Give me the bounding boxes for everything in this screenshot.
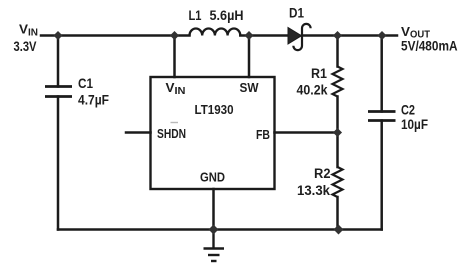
wire top rail left segment (VIN to inductor) [41,34,190,37]
wire FB pin to divider node [275,131,338,134]
wire GND pin to bottom rail [212,189,215,230]
svg-text:R2: R2 [314,166,331,181]
wire left branch lower (C1 bottom plate to bottom rail) [57,97,60,230]
label pin SHDN (faint overbar remnant) [171,122,179,124]
wire R2 bottom to bottom rail [336,197,339,230]
svg-text:D1: D1 [289,6,304,21]
svg-text:13.3k: 13.3k [297,183,330,198]
resistor R1 [333,67,343,97]
resistor R2 [333,167,343,197]
node: ground junction [209,225,219,235]
capacitor C1 [45,87,72,97]
label VIN net [14,22,39,55]
svg-text:4.7µF: 4.7µF [78,93,109,108]
node: FB divider junction [333,128,342,137]
ground [204,230,225,262]
svg-text:SW: SW [240,80,260,95]
node: SW pin junction [244,31,253,40]
svg-text:IN: IN [175,85,186,97]
svg-text:V: V [166,80,175,95]
node: VIN / C1 junction [53,31,62,40]
wire C2 branch upper [380,36,383,112]
label VOUT net [401,24,458,54]
IC U1 LT1930 [151,77,275,189]
label C2 value [401,103,428,133]
node: VIN pin junction [170,31,179,40]
label L1 value [189,8,244,23]
node: VOUT / R1 junction [333,31,342,40]
label C1 value [78,76,109,108]
label R1 value [297,66,328,98]
svg-text:LT1930: LT1930 [195,102,234,117]
svg-text:IN: IN [28,27,38,39]
svg-text:V: V [401,24,410,39]
svg-text:3.3V: 3.3V [14,39,38,54]
wire SW pin to top rail [248,36,251,78]
wire top rail right segment (diode to VOUT) [302,34,397,37]
svg-text:R1: R1 [311,66,327,81]
svg-text:5V/480mA: 5V/480mA [401,39,458,54]
wire VOUT node down to R1 [336,36,339,67]
wire bottom rail [58,228,382,231]
wire VIN pin to top rail [173,36,176,78]
wire top rail middle segment (inductor to diode) [240,34,289,37]
node: R2 bottom junction [334,225,344,235]
svg-text:V: V [19,22,28,37]
wire SHDN stub [126,131,151,134]
wire C2 branch lower [380,121,383,230]
svg-text:5.6µH: 5.6µH [210,8,244,23]
svg-text:L1: L1 [189,8,202,23]
inductor L1 [190,28,241,35]
capacitor C2 [368,112,396,121]
label R2 value [297,166,331,198]
svg-text:C1: C1 [78,76,93,91]
label pin VIN [166,80,186,97]
svg-text:FB: FB [256,127,270,142]
svg-text:SHDN: SHDN [157,126,186,141]
wire left branch upper (node to C1 top plate) [57,36,60,87]
svg-text:40.2k: 40.2k [297,83,328,98]
wire R1 bottom to FB node [336,97,339,168]
diode D1 (schottky) [288,24,311,50]
svg-text:C2: C2 [401,103,415,118]
node: VOUT / C2 junction [377,31,386,40]
svg-text:GND: GND [200,170,225,185]
svg-text:10µF: 10µF [401,117,428,132]
